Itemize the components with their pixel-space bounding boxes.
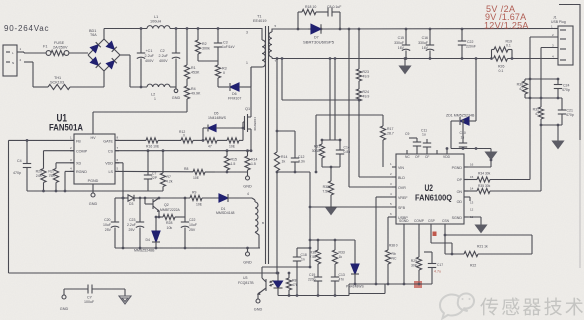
- wire: [277, 171, 310, 173]
- wire: [450, 121, 452, 149]
- resistor R12 0: [181, 138, 193, 143]
- resistor R35 30k: [464, 190, 477, 192]
- resistor R17 28.7: [382, 115, 384, 126]
- resistor R16 10E: [146, 138, 158, 143]
- ground GND sense: [247, 172, 249, 176]
- wire ground rail u1: [27, 190, 163, 192]
- zener D8 PN4148WS: [354, 240, 356, 264]
- node CSP red mark: [433, 232, 437, 237]
- resistor R8 10E: [193, 169, 205, 174]
- wire CS net: [115, 150, 225, 152]
- resistor R4 49.9K: [186, 79, 188, 86]
- U1 pin FB: [70, 139, 74, 141]
- resistor R31 30.1k: [321, 140, 323, 144]
- wire bottom rail high: [349, 283, 432, 285]
- wire: [24, 61, 33, 63]
- U2 pin OVR: [392, 186, 396, 188]
- capacitor C22 10uF 25V: [181, 221, 189, 223]
- wire stub box: [349, 293, 385, 295]
- resistor R15 1.5: [226, 151, 228, 156]
- wire OVR: [349, 186, 396, 188]
- ground GND opto: [256, 299, 260, 303]
- resistor R31 47: [538, 107, 543, 119]
- wire OD net: [464, 196, 470, 198]
- wire: [198, 60, 218, 62]
- wire fb bottom: [9, 272, 278, 274]
- wire PGND net: [464, 166, 491, 168]
- U2 pin VIN: [392, 166, 396, 168]
- U2 pin OP: [464, 179, 468, 181]
- capacitor C21 470p: [561, 98, 563, 110]
- U1 pin COMP: [70, 150, 74, 152]
- wire vin rail: [316, 114, 383, 116]
- wire GATE net: [115, 139, 146, 141]
- resistor R10 47: [205, 138, 217, 143]
- wire USBP: [388, 216, 392, 218]
- wire: [276, 59, 278, 153]
- diode D6 FFM107: [230, 83, 239, 91]
- transformer T1 core: [265, 26, 267, 264]
- capacitor C22 220nF: [461, 29, 463, 41]
- wire vdd rail: [115, 197, 126, 199]
- ground: [557, 125, 559, 141]
- wire XD net: [56, 162, 74, 164]
- wire: [446, 149, 448, 151]
- wire CSP: [430, 228, 432, 243]
- wire LS net: [115, 170, 193, 172]
- wire: [348, 29, 350, 187]
- resistor R29 30k: [418, 228, 420, 257]
- wire bottom rail step: [348, 284, 350, 296]
- U1 pin PGND bottom: [92, 184, 94, 193]
- U2 pin SGND right: [464, 216, 468, 218]
- U2 top pins: [406, 150, 408, 154]
- wire: [525, 78, 558, 80]
- ground: [326, 207, 337, 215]
- wire: [158, 139, 181, 141]
- optocoupler U3 transistor: [262, 266, 310, 268]
- U1 pin GATE: [115, 139, 119, 141]
- wire: [281, 59, 283, 101]
- wire: [175, 216, 185, 218]
- resistor R20 24K: [41, 169, 46, 183]
- J1 pin 3 wire: [541, 47, 558, 49]
- wire sense bottom: [215, 171, 248, 173]
- wire CSN: [444, 228, 446, 254]
- wire: [17, 51, 24, 53]
- U1 pin HV top: [92, 130, 94, 134]
- connector J2 AC inlet: [3, 45, 17, 76]
- U2 pin ON: [464, 190, 468, 192]
- wire secondary gnd rail: [272, 58, 492, 60]
- ground GND aux: [247, 248, 249, 252]
- U2 pin VREF: [392, 196, 396, 198]
- capacitor C16 330uF 16V: [429, 29, 431, 45]
- wire sense top: [225, 150, 251, 152]
- inductor L2: [147, 84, 170, 87]
- resistor R33 1k: [334, 240, 336, 250]
- transistor Q2 MMBT2222A: [152, 199, 154, 209]
- wire SFB: [310, 206, 392, 208]
- capacitor C15 330uF 16V: [405, 29, 407, 45]
- transformer T1 aux winding: [252, 198, 255, 200]
- capacitor CY 100uF: [87, 285, 89, 294]
- resistor R2 300k: [195, 40, 200, 54]
- wire emitter node: [155, 216, 163, 218]
- wire BNO net: [65, 170, 74, 172]
- wire: [92, 288, 125, 290]
- ground sgnd right: [464, 216, 481, 218]
- wire: [103, 29, 105, 40]
- resistor R21 1k: [464, 251, 478, 256]
- capacitor C24 470p: [557, 79, 559, 85]
- U2 pin BLD: [392, 176, 396, 178]
- capacitor C10 1u: [462, 121, 464, 143]
- capacitor C12 3.3n: [277, 130, 295, 132]
- wire: [322, 166, 340, 168]
- capacitor C8 0.1uF: [327, 8, 329, 17]
- zener D4 MMSZ5248B: [155, 217, 157, 231]
- capacitor C17 4.7u: [431, 252, 433, 264]
- J1 pin 2 wire: [530, 36, 558, 38]
- capacitor C14 0.8n: [339, 140, 341, 150]
- wire HV sense to U1: [93, 111, 187, 113]
- connector J1 USB Plug: [558, 26, 573, 65]
- wire COMP net: [44, 150, 75, 152]
- U1 pin XD: [70, 162, 74, 164]
- wire: [64, 288, 88, 290]
- capacitor C19 220p: [314, 276, 322, 278]
- fuse F1 2A/250V: [46, 51, 51, 56]
- thermistor TH1 SCK103: [48, 84, 70, 89]
- wire bridge DC-: [120, 54, 130, 56]
- resistor R11 10E: [227, 138, 239, 143]
- U1 pin BNO: [70, 170, 74, 172]
- resistor R34 30k: [464, 179, 477, 181]
- wire vdd rail: [138, 197, 190, 199]
- wire frame right: [559, 5, 580, 141]
- diode D7 SBRT30U60SP5: [308, 28, 311, 30]
- wire: [70, 86, 104, 88]
- wire sfb vertical: [309, 172, 311, 267]
- op-amp U2 FAN6100Q body: [396, 154, 464, 224]
- U2 pin USBP: [392, 216, 396, 218]
- U1 pin LS: [115, 170, 119, 172]
- capacitor C7 22P: [147, 151, 149, 175]
- resistor R1 453K: [186, 29, 188, 66]
- wire BLD: [359, 176, 396, 178]
- watermark icon: [440, 294, 474, 319]
- wire: [310, 239, 355, 241]
- capacitor C13 47n: [331, 276, 339, 278]
- capacitor C3 1uF/1kV: [217, 40, 219, 43]
- U1 pin VDD: [115, 162, 119, 164]
- resistor R14 1k: [274, 152, 279, 171]
- wire: [451, 148, 491, 150]
- wire: [202, 197, 219, 199]
- wire: [541, 124, 562, 126]
- resistor R19 0.1 shunt: [491, 50, 493, 59]
- capacitor C4 470p: [26, 139, 29, 142]
- resistor R3 0: [215, 65, 220, 78]
- resistor R23 49.9: [358, 29, 360, 69]
- wire: [316, 11, 328, 13]
- resistor R26 0.1 shunt: [494, 56, 508, 61]
- optocoupler U3 FCQ817B LED: [277, 273, 279, 281]
- wire: [239, 139, 243, 141]
- wire top rail: [104, 28, 147, 30]
- inductor L1 100uH: [147, 26, 170, 29]
- ground net GND primary DC: [175, 87, 177, 89]
- capacitor C1 2.2uF 400V: [140, 29, 142, 54]
- U1 pin CS: [115, 150, 119, 152]
- wire bottom rail low: [278, 295, 349, 297]
- resistor R36 7.5k: [317, 240, 319, 250]
- wire vdd gnd rail: [115, 247, 260, 249]
- transformer T1 secondary winding: [272, 29, 282, 32]
- capacitor C20 10uF 25V: [114, 198, 116, 222]
- U2 pin PGND: [464, 166, 468, 168]
- wire: [69, 52, 88, 54]
- wire: [276, 172, 278, 273]
- op-amp U1 FAN501A body: [74, 134, 115, 184]
- capacitor C2 2.2uF 400V: [175, 29, 177, 54]
- wire: [239, 86, 251, 88]
- earth ground: [124, 289, 126, 296]
- wire SGND: [403, 228, 405, 284]
- wire: [282, 28, 308, 30]
- red highlight mark: [414, 281, 422, 288]
- wire top rail: [170, 28, 247, 30]
- capacitor C18 1n: [297, 247, 310, 249]
- bridge rectifier BD1: [88, 39, 120, 71]
- wire output rail: [321, 28, 558, 31]
- ground: [490, 149, 492, 153]
- wire: [197, 29, 199, 41]
- resistor Rb NC: [385, 250, 390, 264]
- wire: [525, 97, 562, 99]
- ground GND U1: [91, 193, 95, 197]
- wire sense loop: [445, 234, 532, 236]
- wire VDD net: [115, 162, 123, 164]
- snubber wire: [297, 12, 299, 29]
- node junctions: [140, 27, 143, 30]
- wire: [193, 139, 203, 141]
- capacitor C9: [416, 146, 418, 150]
- wire: [445, 253, 464, 255]
- wire: [508, 58, 559, 60]
- capacitor C23 2.2uF 25V: [139, 198, 141, 222]
- wire: [205, 171, 215, 173]
- wire FB net: [9, 139, 75, 141]
- ground secondary: [404, 59, 406, 67]
- zener ZD1 MM5Z5234B: [451, 120, 459, 122]
- diode D5 1N4148WS: [203, 127, 207, 129]
- resistor R9 10E: [190, 195, 202, 200]
- wire VREF: [376, 196, 392, 198]
- transformer T1 primary winding: [247, 29, 262, 41]
- U2 pin SFB: [392, 206, 396, 208]
- resistor R24 49.9: [358, 81, 360, 89]
- wire: [217, 139, 227, 141]
- resistor R32 7.5k: [330, 167, 332, 181]
- resistor R7 4.2k: [162, 151, 164, 173]
- resistor R30 47: [524, 79, 526, 81]
- resistor R8 47k: [288, 273, 290, 278]
- transistor Q1 MOSFET: [243, 121, 245, 123]
- diode D3: [126, 197, 128, 199]
- wire: [329, 59, 331, 141]
- J1 pin 1: [554, 28, 558, 30]
- resistor R18 10: [302, 9, 316, 14]
- U2 bottom pins: [403, 224, 405, 228]
- capacitor C11 1u: [426, 147, 428, 150]
- wire: [170, 86, 176, 88]
- resistor R27 75K: [53, 169, 58, 183]
- ground net GND CY: [62, 295, 66, 299]
- diode D1 MMSD4148: [219, 194, 228, 202]
- resistor R28 10k: [163, 214, 175, 219]
- wire Q1 drain: [250, 67, 252, 108]
- resistor R14 1.5: [247, 151, 249, 156]
